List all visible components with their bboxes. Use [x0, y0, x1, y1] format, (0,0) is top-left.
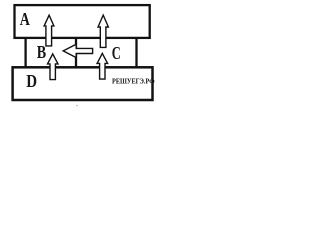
hollow arrow up from C into A [98, 15, 108, 47]
hollow arrow up from D into B [48, 54, 59, 80]
watermark РЕШУЕГЭ.РФ [112, 76, 155, 85]
svg-text:A: A [20, 9, 31, 29]
hollow arrow up from D into C [97, 53, 108, 79]
box D (bottom reservoir rectangle) [13, 67, 153, 100]
wall: right edge of box C [135, 38, 137, 68]
label A [20, 9, 31, 29]
label B [37, 42, 47, 62]
svg-text:C: C [112, 43, 121, 63]
label C [112, 43, 121, 63]
wall: divider between boxes B and C [75, 38, 77, 68]
background [0, 0, 160, 110]
hollow arrow up from B into A [44, 15, 54, 46]
svg-text:РЕШУЕГЭ.РФ: РЕШУЕГЭ.РФ [112, 76, 155, 85]
stray scan dot [76, 105, 77, 106]
label D [26, 71, 37, 91]
box A (top reservoir rectangle) [15, 5, 150, 38]
wall: left edge of box B [24, 38, 26, 68]
svg-text:B: B [37, 42, 47, 62]
hollow arrow left from C into B [63, 44, 92, 57]
svg-text:D: D [26, 71, 37, 91]
